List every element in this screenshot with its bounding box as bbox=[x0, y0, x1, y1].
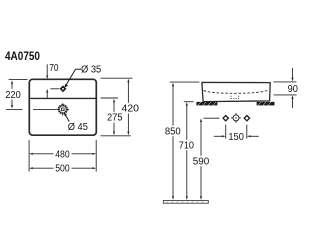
side view basin profile bbox=[202, 82, 270, 101]
svg-text:590: 590 bbox=[193, 157, 210, 168]
floor slab bbox=[163, 200, 208, 203]
ext line 90 bottom bbox=[274, 94, 297, 96]
mounting pad left bbox=[196, 102, 217, 106]
ext line underside (710) bbox=[184, 101, 194, 103]
svg-text:70: 70 bbox=[49, 63, 59, 74]
ext line basin top left bbox=[170, 81, 200, 83]
svg-text:90: 90 bbox=[288, 84, 299, 95]
svg-text:Ø 35: Ø 35 bbox=[81, 65, 102, 76]
svg-text:Ø 45: Ø 45 bbox=[68, 122, 89, 133]
basin rim line (plan) bbox=[30, 97, 96, 99]
svg-text:480: 480 bbox=[55, 149, 70, 160]
drain (Ø45) bbox=[57, 103, 69, 115]
svg-text:420: 420 bbox=[122, 104, 140, 115]
dim 420 bbox=[101, 78, 133, 136]
svg-text:150: 150 bbox=[228, 132, 244, 143]
svg-text:220: 220 bbox=[5, 90, 21, 101]
dim 590 bbox=[200, 122, 202, 197]
fixing hole diamond right bbox=[244, 115, 250, 121]
faucet hole (Ø35) bbox=[60, 85, 67, 92]
dim 275 bbox=[101, 98, 119, 132]
dim 710 bbox=[186, 105, 188, 197]
bowl dashed line bbox=[204, 90, 269, 93]
svg-text:710: 710 bbox=[179, 141, 195, 152]
ext line fixing row (590) bbox=[204, 117, 220, 119]
dim 220 bbox=[6, 79, 57, 109]
ext line 90 top bbox=[273, 81, 296, 83]
dim 70 bbox=[47, 64, 59, 98]
washbasin outline plan view bbox=[29, 79, 96, 135]
drain dashes (side) bbox=[231, 96, 240, 99]
leader Ø45 bbox=[64, 113, 69, 122]
dim 500 bbox=[33, 167, 93, 169]
leader Ø35 bbox=[65, 69, 82, 87]
dim 480 bbox=[29, 140, 96, 172]
svg-text:275: 275 bbox=[107, 113, 123, 124]
svg-text:500: 500 bbox=[55, 164, 70, 175]
mounting pad right bbox=[257, 102, 275, 106]
svg-text:4A0750: 4A0750 bbox=[5, 51, 40, 63]
fixing hole diamond left bbox=[223, 115, 229, 121]
dim 150 bbox=[214, 125, 259, 139]
dim 90 bbox=[292, 68, 294, 108]
svg-text:850: 850 bbox=[165, 127, 181, 138]
fixing crosshair circle bbox=[231, 113, 241, 123]
dim 850 bbox=[172, 86, 174, 197]
